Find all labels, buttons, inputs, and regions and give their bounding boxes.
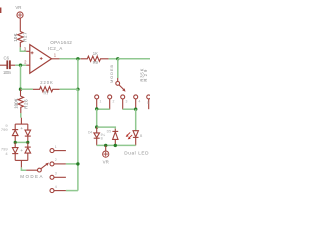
resistor R27 (vertical): [18, 32, 23, 48]
wire diode bottom rail: [97, 144, 136, 146]
wire MODEA contact 2 to output net: [66, 163, 78, 165]
switch MODEA contact 2: [50, 162, 54, 166]
LED D7 (cathode down): [133, 130, 139, 145]
svg-text:10K: 10K: [13, 33, 18, 42]
switch MODEB contact 3: [121, 95, 125, 99]
svg-text:4: 4: [139, 99, 141, 103]
node C junction: [76, 88, 79, 91]
node D2 junction: [116, 57, 119, 60]
op-amp + mark (inner): [40, 57, 43, 60]
wire VR to R27: [19, 18, 21, 32]
wire R7 to node C: [60, 88, 78, 90]
svg-text:3: 3: [126, 99, 128, 103]
svg-text:OPA1642: OPA1642: [50, 40, 72, 45]
wire node D1 down to node C: [77, 59, 79, 90]
svg-text:R7: R7: [44, 90, 50, 95]
stack bottom rail: [15, 159, 28, 161]
stack middle rail: [15, 141, 28, 143]
wire output net down left column: [77, 89, 79, 190]
pin stub op-amp pin 2: [26, 64, 30, 66]
svg-text:VR: VR: [15, 5, 21, 10]
wire node D2 to right edge: [118, 58, 150, 60]
svg-text:2: 2: [113, 99, 115, 103]
svg-text:R29: R29: [143, 69, 148, 82]
junction stack mid right: [26, 141, 29, 144]
node A junction: [19, 63, 22, 66]
node E junction: [76, 162, 79, 165]
svg-text:IC2_A: IC2_A: [48, 46, 63, 51]
node B junction: [19, 88, 22, 91]
resistor R9: [81, 56, 109, 61]
diode D lower-right (cathode up): [25, 142, 31, 160]
svg-text:4: 4: [5, 151, 8, 156]
node MODEB-34 junction: [134, 108, 137, 111]
svg-text:220K: 220K: [40, 80, 53, 85]
svg-text:100n: 100n: [3, 70, 12, 75]
switch MODEA wiper: [38, 168, 42, 172]
svg-text:R26: R26: [23, 99, 28, 109]
diode D6 (cathode up): [112, 129, 118, 146]
svg-text:5: 5: [147, 101, 149, 105]
resistor R7: [33, 87, 60, 92]
svg-text:4: 4: [55, 185, 57, 189]
diode stack top pin: [20, 118, 22, 124]
wire into C6 from left edge: [0, 64, 7, 66]
op-amp IC2_A: [30, 45, 52, 74]
clipped symbol at left edge: [0, 8, 1, 14]
svg-text:B: B: [101, 136, 103, 140]
node F junction: [95, 125, 98, 128]
svg-text:100K: 100K: [14, 98, 19, 109]
diode D lower-left (cathode down): [12, 142, 18, 160]
diode D upper-right (cathode down): [25, 124, 31, 142]
svg-text:2: 2: [55, 158, 57, 162]
switch MODEB contact 5 (clipped): [147, 95, 151, 99]
svg-text:1: 1: [100, 99, 102, 103]
LED emission arrows: [127, 132, 132, 138]
svg-text:Dual LED: Dual LED: [124, 151, 149, 156]
junction VR tap: [104, 144, 107, 147]
wire node B down to R26: [20, 89, 22, 96]
wire node D2 down to MODEB wiper: [117, 59, 119, 78]
switch MODEB wiper: [116, 82, 120, 86]
stack bottom pin: [20, 160, 22, 167]
svg-text:MODEB: MODEB: [109, 65, 114, 83]
switch MODEB contact 1: [95, 95, 99, 99]
svg-text:799: 799: [1, 127, 8, 132]
power symbol VR (bottom): [105, 145, 107, 151]
switch MODEA contact 1: [50, 149, 54, 153]
junction stack mid left: [14, 141, 17, 144]
wire MODEA contact 4 to output net: [66, 190, 78, 192]
svg-text:1: 1: [55, 145, 57, 149]
power symbol VR (top): [17, 12, 23, 18]
op-amp + mark (top input): [31, 51, 34, 54]
switch MODEB contact 4: [134, 95, 138, 99]
switch MODEA contact 4: [50, 189, 54, 193]
wire R9 to node D2: [109, 58, 118, 60]
diode stack top rail: [15, 123, 28, 125]
wire op-amp output to node D1: [60, 58, 81, 60]
wire R26 to diode stack: [20, 113, 22, 118]
junction D6 bottom: [114, 144, 117, 147]
diode D upper-left (cathode up): [12, 124, 18, 142]
svg-text:R27: R27: [23, 32, 28, 42]
wire down to LED: [135, 109, 137, 130]
wire C6 to node A: [11, 64, 16, 66]
wire R27 to op-amp pin 3: [20, 47, 26, 51]
diode D5 (cathode down): [94, 127, 100, 145]
svg-text:C6: C6: [4, 56, 10, 61]
wire node F to diode D6: [97, 127, 116, 129]
svg-text:MODEA: MODEA: [20, 174, 42, 179]
switch MODEA contact 3: [50, 175, 54, 179]
svg-text:R9: R9: [93, 60, 99, 65]
svg-text:D4: D4: [88, 130, 92, 134]
svg-text:2: 2: [24, 60, 27, 65]
switch MODEA wiper pin: [26, 169, 37, 171]
svg-text:3: 3: [55, 172, 57, 176]
switch MODEB contact 2: [108, 95, 112, 99]
svg-text:D5: D5: [107, 129, 111, 133]
pin stub op-amp pin 3: [26, 50, 30, 52]
wire MODEB contacts 3-4: [123, 108, 136, 110]
svg-text:1K: 1K: [93, 51, 98, 56]
svg-text:B: B: [140, 134, 143, 138]
svg-text:VR: VR: [103, 159, 109, 164]
node MODEB-12 junction: [95, 107, 98, 110]
stack origin mark bottom: [21, 149, 23, 151]
node D1 junction: [76, 57, 79, 60]
resistor R26 (vertical): [18, 96, 23, 113]
capacitor C6: [7, 60, 10, 69]
wire node A to op-amp pin 2: [15, 64, 26, 66]
wire down to node F: [96, 109, 98, 127]
output pin stub op-amp pin 1: [52, 58, 60, 60]
wire stack to MODEA wiper: [21, 167, 26, 170]
svg-text:1: 1: [54, 53, 57, 58]
wire node B to R7: [21, 88, 33, 90]
wire MODEB contacts 1-2: [97, 108, 110, 110]
wire node A down to node B: [20, 65, 22, 89]
stack origin mark top: [21, 127, 23, 129]
